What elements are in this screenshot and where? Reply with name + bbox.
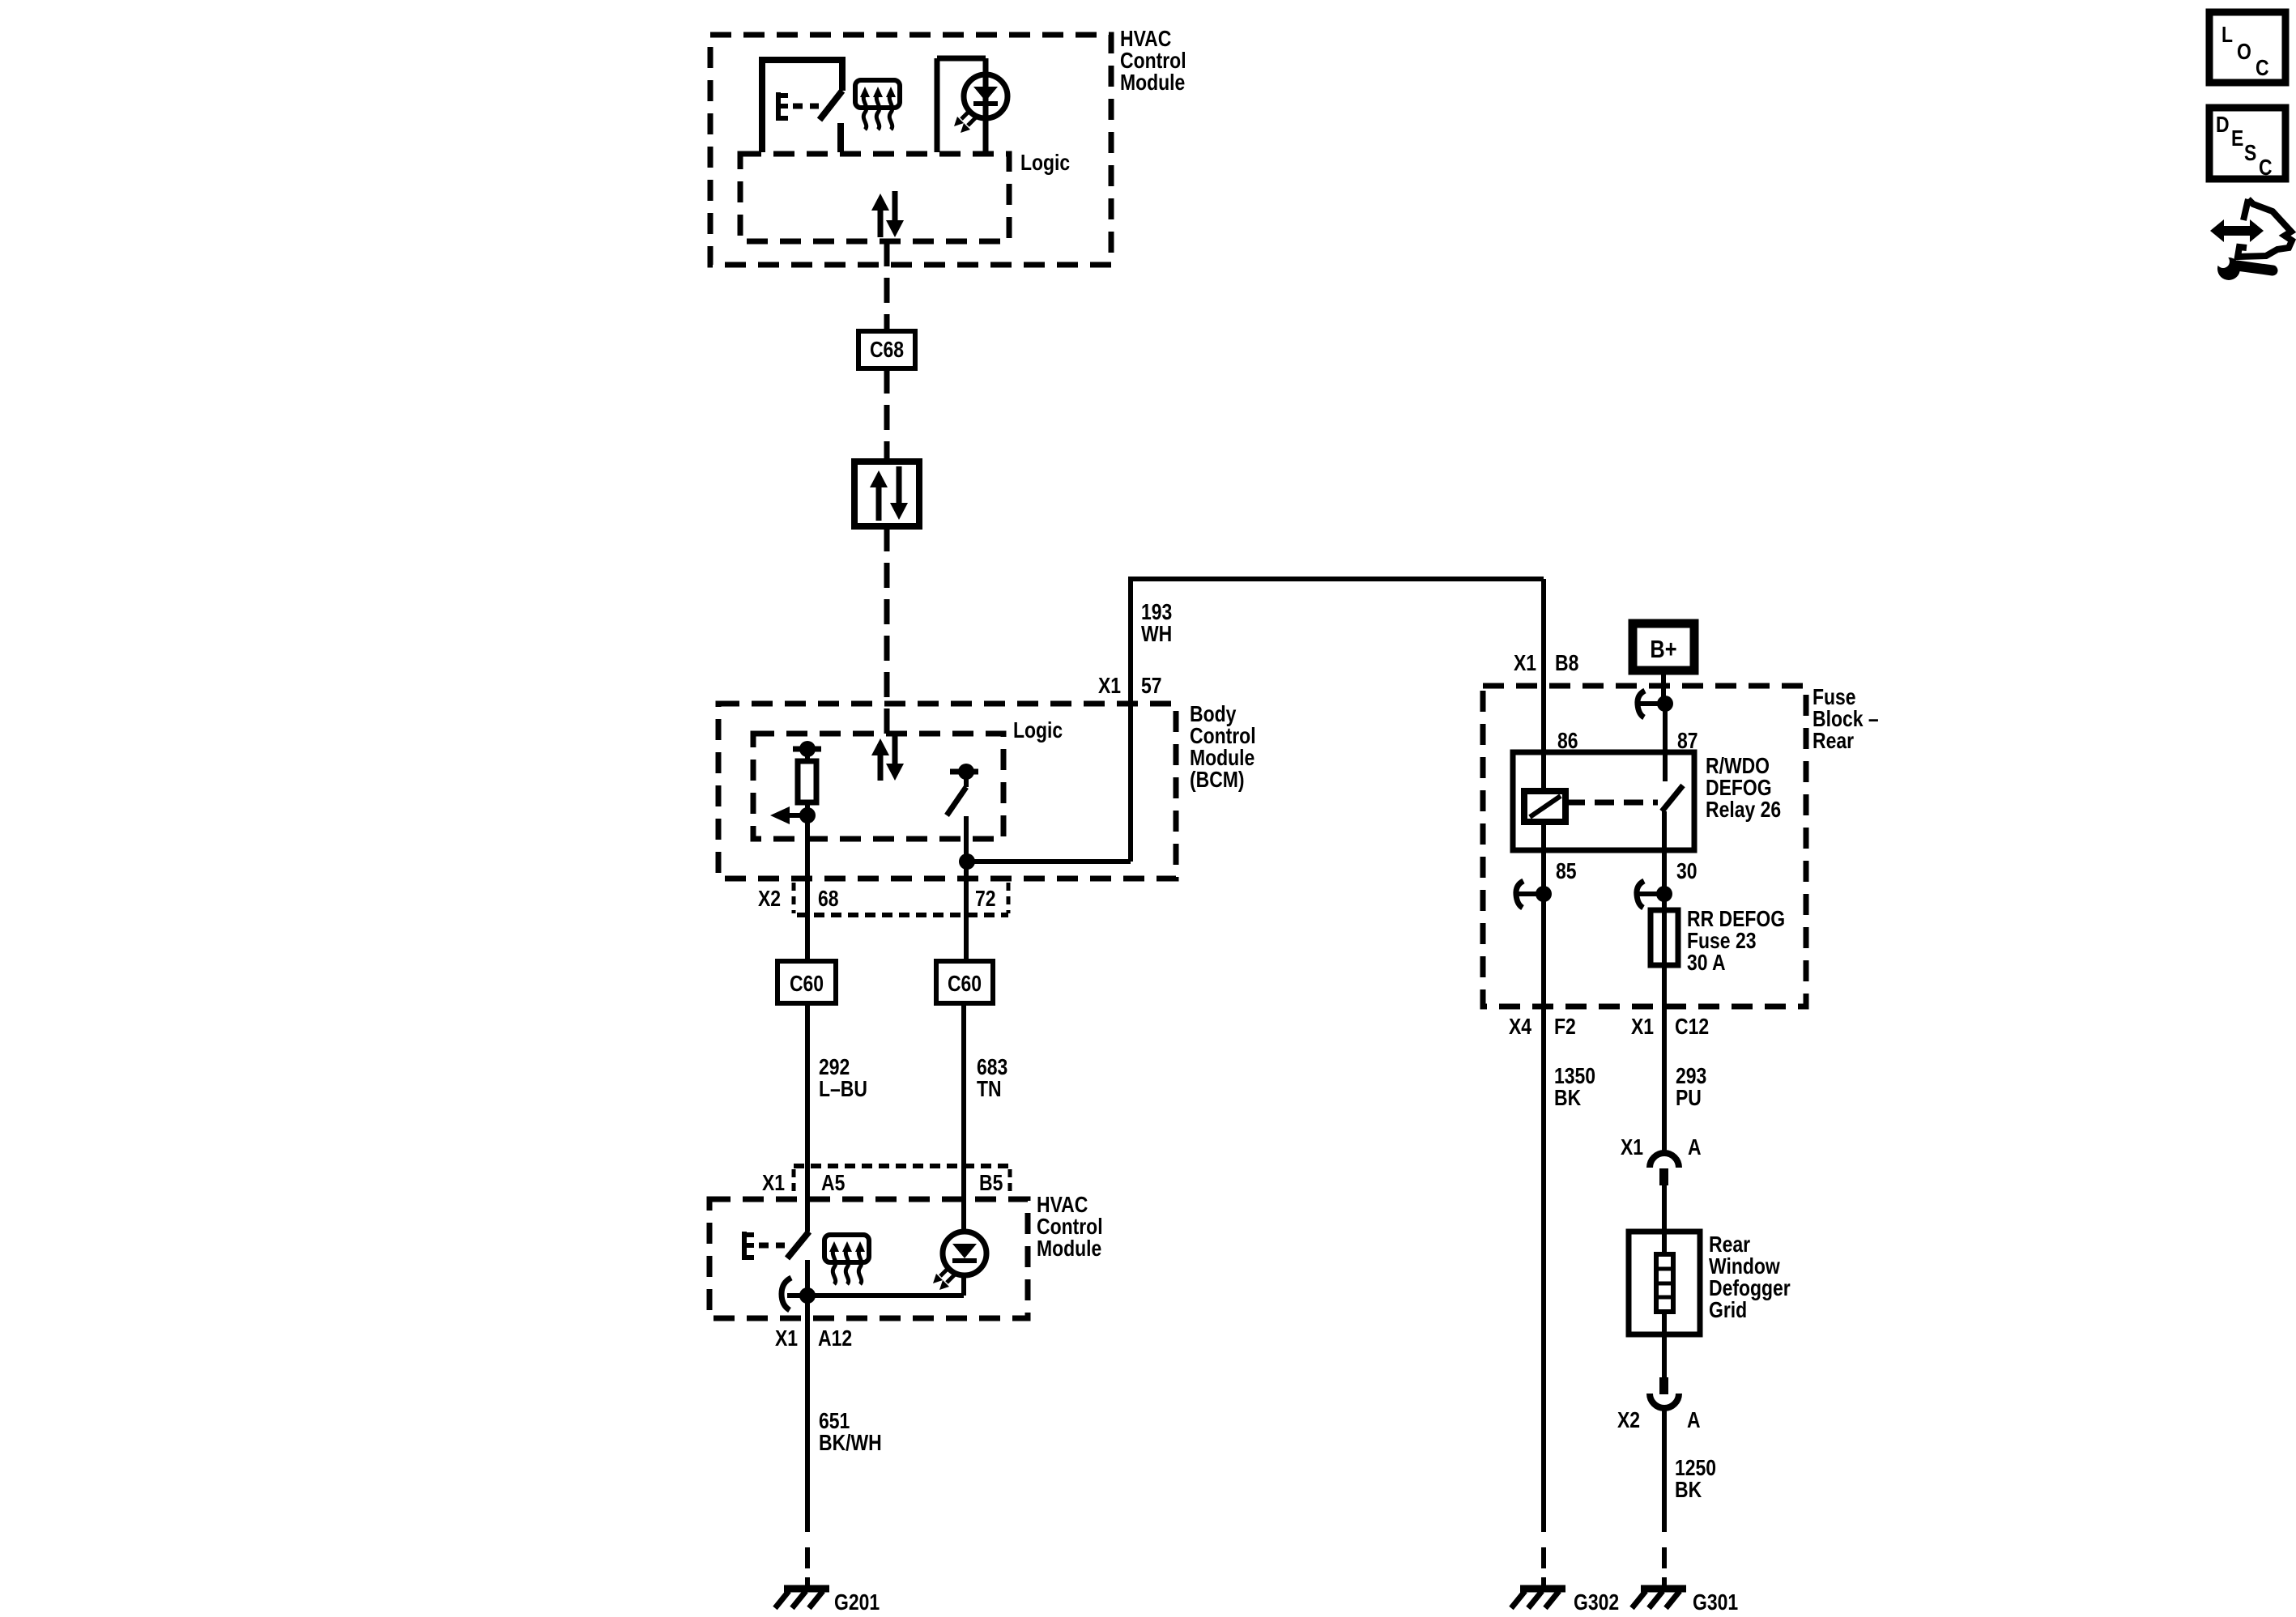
wire circuit 1250 BK bbox=[1662, 1409, 1667, 1511]
svg-text:C60: C60 bbox=[790, 972, 824, 997]
svg-text:F2: F2 bbox=[1554, 1015, 1576, 1040]
wire 651 dashed to ground bbox=[805, 1511, 810, 1589]
wire circuit 193 WH vertical riser bbox=[1128, 579, 1133, 862]
pin labels X1 A (upper inline connector) bbox=[1621, 1135, 1702, 1160]
svg-text:X1: X1 bbox=[1631, 1015, 1654, 1040]
wire serial data (dashed) comm symbol to BCM bbox=[884, 526, 890, 734]
ground G302 bbox=[1511, 1589, 1619, 1615]
wire circuit 193 WH horizontal run to fuse block bbox=[1128, 577, 1544, 581]
pin labels X4 F2 X1 C12 bbox=[1509, 1015, 1709, 1040]
svg-text:86: 86 bbox=[1557, 729, 1578, 754]
svg-text:A: A bbox=[1687, 1408, 1701, 1433]
wire HVAC pin A12 inside box bbox=[805, 1296, 810, 1318]
wire circuit 292 L-BU bbox=[805, 1003, 810, 1232]
pin labels X1 A12 bbox=[775, 1326, 852, 1351]
connector strip X1 (HVAC bottom) dotted line and ticks bbox=[794, 1166, 1010, 1194]
label wire 1350 BK bbox=[1554, 1064, 1595, 1111]
svg-text:(BCM): (BCM) bbox=[1190, 768, 1245, 793]
svg-text:72: 72 bbox=[975, 887, 996, 912]
wire relay pin 30 down bbox=[1662, 850, 1667, 894]
svg-text:A: A bbox=[1688, 1135, 1702, 1160]
svg-text:G301: G301 bbox=[1693, 1590, 1738, 1615]
up/down serial data arrows inside BCM logic bbox=[871, 735, 904, 781]
service hand-and-wrench icon bbox=[2210, 199, 2292, 280]
svg-text:B5: B5 bbox=[979, 1171, 1003, 1196]
wire serial data (dashed) from logic to C68 bbox=[884, 241, 890, 331]
wire circuit 683 TN bbox=[961, 1003, 966, 1232]
pin labels X1 B8 bbox=[1514, 651, 1578, 676]
wire LED cathode down, bottom module bbox=[961, 1275, 966, 1296]
wire relay pin 85 down bbox=[1541, 822, 1546, 894]
svg-text:Relay 26: Relay 26 bbox=[1706, 798, 1781, 823]
module HVAC Control Module (bottom) dashed box bbox=[709, 1199, 1028, 1318]
power feed B+ symbol bbox=[1633, 623, 1694, 670]
svg-text:85: 85 bbox=[1556, 859, 1577, 884]
svg-text:X1: X1 bbox=[1621, 1135, 1643, 1160]
LOC legend box bbox=[2209, 12, 2285, 83]
node junction under B+ with terminal hook bbox=[1638, 691, 1673, 717]
pin labels X2 68 72 bbox=[758, 887, 996, 912]
svg-text:Logic: Logic bbox=[1013, 718, 1063, 743]
connector C60 (left) bbox=[777, 961, 836, 1003]
wire B+ feed down bbox=[1661, 674, 1666, 704]
relay R/WDO DEFOG Relay 26 box bbox=[1513, 752, 1694, 850]
label HVAC Control Module (top) bbox=[1120, 27, 1186, 96]
label R/WDO DEFOG Relay 26 bbox=[1706, 754, 1781, 823]
wire circuit B8 down to relay coil bbox=[1541, 579, 1546, 791]
momentary-contact hook, bottom module switch bbox=[782, 1278, 791, 1310]
svg-text:Module: Module bbox=[1037, 1236, 1101, 1262]
svg-text:57: 57 bbox=[1141, 674, 1162, 699]
svg-text:68: 68 bbox=[818, 887, 839, 912]
svg-text:30 A: 30 A bbox=[1687, 951, 1726, 976]
LED indicator, bottom module bbox=[933, 1232, 986, 1290]
label Body Control Module (BCM) bbox=[1190, 702, 1256, 793]
svg-text:L: L bbox=[2221, 23, 2233, 48]
svg-text:X1: X1 bbox=[1514, 651, 1536, 676]
DESC legend box bbox=[2209, 108, 2285, 181]
svg-text:X2: X2 bbox=[1617, 1408, 1640, 1433]
label wire 683 TN bbox=[977, 1055, 1007, 1102]
switch (defog request) bottom module bbox=[787, 1232, 809, 1296]
wire circuit 193 WH horizontal inside BCM bbox=[967, 859, 1131, 864]
svg-text:30: 30 bbox=[1676, 859, 1698, 884]
svg-text:BK/WH: BK/WH bbox=[819, 1431, 882, 1456]
wire serial data (dashed) C68 to comm symbol bbox=[884, 368, 890, 462]
svg-text:C: C bbox=[2256, 56, 2269, 81]
svg-text:BK: BK bbox=[1675, 1478, 1702, 1503]
component Rear Window Defogger Grid box bbox=[1629, 1232, 1700, 1334]
switch contact E label, bottom module bbox=[742, 1232, 785, 1260]
label HVAC Control Module (bottom) bbox=[1037, 1193, 1103, 1262]
svg-text:G201: G201 bbox=[834, 1590, 880, 1615]
pin labels 85 30 bbox=[1556, 859, 1698, 884]
wire pin30 junction to fuse bbox=[1662, 894, 1667, 910]
svg-text:A12: A12 bbox=[818, 1326, 852, 1351]
svg-text:D: D bbox=[2216, 113, 2230, 138]
svg-text:C: C bbox=[2259, 155, 2273, 181]
logic box (BCM) dashed bbox=[753, 734, 1003, 839]
svg-text:B+: B+ bbox=[1650, 636, 1676, 664]
connector C60 (right) bbox=[936, 961, 993, 1003]
wire BCM pin 72 bbox=[964, 862, 969, 961]
svg-text:Rear: Rear bbox=[1813, 729, 1854, 754]
output arrow left from resistor junction bbox=[770, 806, 816, 824]
svg-text:WH: WH bbox=[1141, 622, 1172, 647]
inline connector X2 A (stub over arc) bbox=[1650, 1377, 1679, 1408]
wire junction to relay switch contact 87 bbox=[1663, 704, 1668, 781]
svg-text:L–BU: L–BU bbox=[819, 1077, 867, 1102]
relay coil bbox=[1524, 791, 1565, 822]
svg-text:A5: A5 bbox=[821, 1171, 845, 1196]
svg-text:PU: PU bbox=[1676, 1086, 1702, 1111]
logic box (top HVAC) dashed bbox=[740, 154, 1009, 241]
wire circuit 651 BK/WH bbox=[805, 1318, 810, 1511]
module HVAC Control Module (top) dashed box bbox=[710, 35, 1111, 265]
module Body Control Module (BCM) dashed box bbox=[718, 704, 1176, 879]
label wire 292 L-BU bbox=[819, 1055, 867, 1102]
pin labels X2 A (lower inline connector) bbox=[1617, 1408, 1701, 1433]
svg-text:TN: TN bbox=[977, 1077, 1002, 1102]
svg-text:G302: G302 bbox=[1574, 1590, 1619, 1615]
up/down serial data arrows inside top logic box bbox=[871, 191, 904, 237]
wire 1250 BK dashed to ground bbox=[1662, 1511, 1667, 1589]
label Rear Window Defogger Grid bbox=[1709, 1232, 1791, 1323]
label wire 1250 BK bbox=[1675, 1456, 1716, 1503]
node junction pin 30 with terminal hook bbox=[1637, 881, 1672, 908]
wire fuse to block edge bbox=[1662, 965, 1667, 1006]
svg-text:Module: Module bbox=[1120, 70, 1185, 96]
label wire 293 PU bbox=[1676, 1064, 1706, 1111]
connector strip X2 (BCM) ticks and dotted line bbox=[794, 883, 1008, 915]
ground G301 bbox=[1632, 1589, 1738, 1615]
svg-text:C68: C68 bbox=[870, 338, 904, 363]
svg-text:S: S bbox=[2244, 141, 2256, 166]
wire grid to X2 connector bbox=[1662, 1334, 1667, 1377]
rear defog heater icon, bottom module bbox=[824, 1235, 869, 1284]
wire BCM switch to junction bbox=[964, 816, 969, 862]
resistor (BCM output driver) bbox=[793, 741, 821, 815]
wire X4 F2 down from block bbox=[1541, 894, 1546, 1511]
pin label X1 57 (BCM) bbox=[1098, 674, 1162, 699]
LED indicator, top module bbox=[954, 74, 1007, 133]
svg-text:E: E bbox=[2231, 126, 2243, 151]
rear defog heater icon, top module bbox=[855, 80, 900, 130]
svg-text:BK: BK bbox=[1554, 1086, 1582, 1111]
wire BCM pin 68 bbox=[805, 815, 810, 961]
LED indicator frame, top module bbox=[937, 58, 986, 152]
label RR DEFOG Fuse 23 30 A bbox=[1687, 907, 1785, 976]
serial data comm symbol (box with up/down arrows) bbox=[854, 462, 919, 526]
label wire 651 BK/WH bbox=[819, 1409, 882, 1456]
switch contact E label, top module bbox=[776, 92, 819, 121]
pin labels X1 A5 B5 bbox=[762, 1171, 1003, 1196]
node junction pin 85 with terminal hook bbox=[1516, 881, 1552, 908]
svg-text:B8: B8 bbox=[1555, 651, 1578, 676]
wire circuit 293 PU bbox=[1662, 1006, 1667, 1153]
switch S (defogger request) housing, top module bbox=[762, 60, 842, 152]
svg-text:X1: X1 bbox=[1098, 674, 1121, 699]
switch (BCM defog relay driver) bbox=[947, 764, 978, 815]
svg-text:Grid: Grid bbox=[1709, 1298, 1747, 1323]
relay coil-to-switch dashed link bbox=[1565, 800, 1658, 806]
relay switch blade bbox=[1662, 785, 1683, 850]
ground G201 bbox=[775, 1589, 880, 1615]
wire 1350 BK dashed to ground bbox=[1541, 1511, 1546, 1589]
svg-text:87: 87 bbox=[1677, 729, 1698, 754]
pin labels 86 87 bbox=[1557, 729, 1698, 754]
label wire 193 WH bbox=[1141, 600, 1172, 647]
wire connector to grid box bbox=[1662, 1185, 1667, 1232]
svg-text:C12: C12 bbox=[1675, 1015, 1709, 1040]
svg-text:X1: X1 bbox=[775, 1326, 798, 1351]
svg-text:X2: X2 bbox=[758, 887, 781, 912]
svg-text:Logic: Logic bbox=[1020, 151, 1070, 176]
svg-text:O: O bbox=[2237, 40, 2251, 65]
label Fuse Block - Rear bbox=[1813, 685, 1879, 754]
inline connector X1 A (arc over stub) bbox=[1650, 1153, 1679, 1185]
wire internal ground bus, bottom module bbox=[787, 1287, 964, 1304]
module Fuse Block - Rear dashed box bbox=[1483, 686, 1806, 1006]
svg-text:X1: X1 bbox=[762, 1171, 785, 1196]
svg-text:C60: C60 bbox=[948, 972, 982, 997]
node junction 193WH takeoff bbox=[959, 853, 975, 870]
svg-text:X4: X4 bbox=[1509, 1015, 1532, 1040]
connector C68 bbox=[858, 331, 915, 368]
fuse RR DEFOG Fuse 23 30 A bbox=[1651, 910, 1678, 965]
